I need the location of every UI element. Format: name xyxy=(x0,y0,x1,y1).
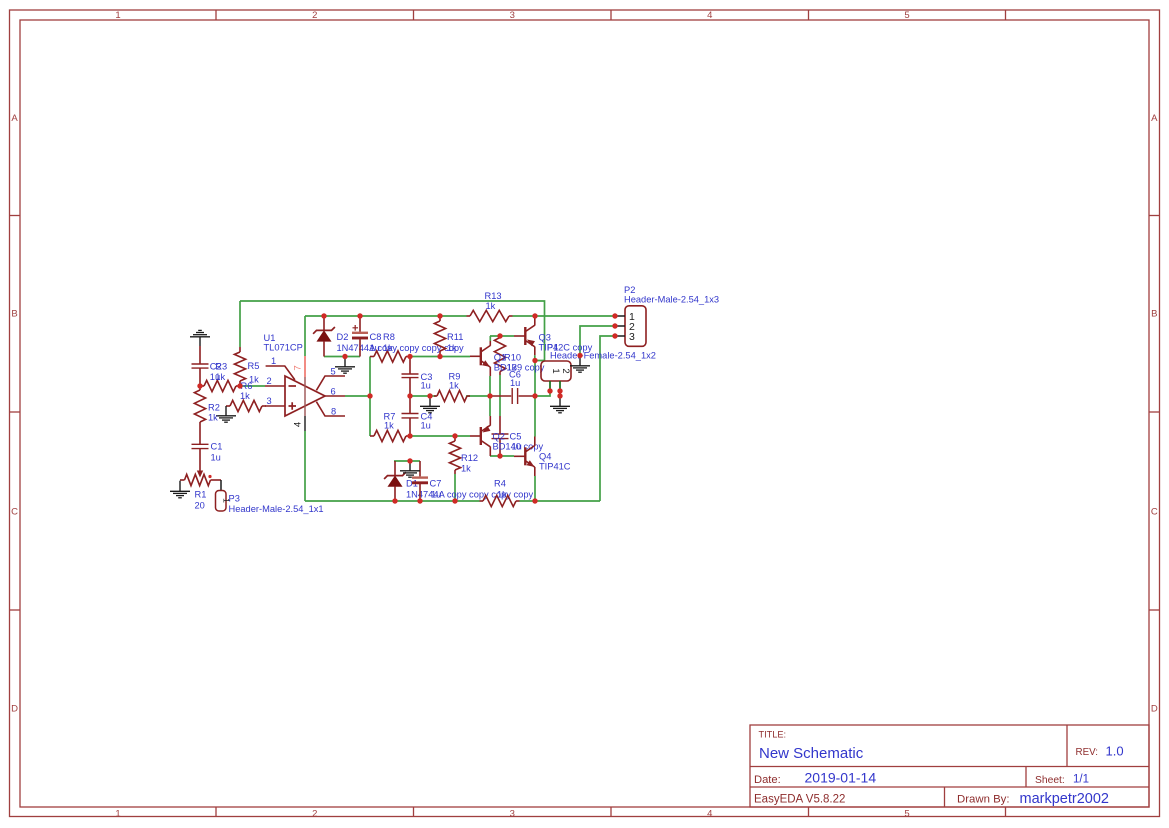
svg-text:2019-01-14: 2019-01-14 xyxy=(805,770,877,786)
junction dot (430,396) xyxy=(427,393,432,398)
header P2 pin 1 lead xyxy=(615,315,625,317)
svg-text:3: 3 xyxy=(629,331,635,343)
svg-text:R11: R11 xyxy=(447,332,463,342)
svg-text:1k: 1k xyxy=(240,391,250,401)
svg-text:6: 6 xyxy=(331,387,336,397)
ruler column numbers bottom xyxy=(115,808,909,819)
junction dot (360,316) xyxy=(357,313,362,318)
svg-text:5: 5 xyxy=(904,10,909,21)
transistor Q3 (TIP42C) xyxy=(514,325,535,347)
wire inverting input to pin2 xyxy=(240,385,265,387)
ruler column ticks xyxy=(216,10,1006,817)
wire pin7 supply drop xyxy=(304,316,306,356)
op-amp U1 triangle xyxy=(285,376,325,416)
svg-text:markpetr2002: markpetr2002 xyxy=(1020,791,1109,807)
op-amp pin 3 lead xyxy=(265,405,285,407)
header P1 pin2 to gnd stub xyxy=(559,391,561,396)
svg-text:R2: R2 xyxy=(208,403,220,413)
svg-text:BD139 copy: BD139 copy xyxy=(494,363,545,373)
svg-text:1k: 1k xyxy=(497,490,507,500)
junction dot (200,386) xyxy=(197,383,202,388)
op-amp pin 7 lead (salmon) xyxy=(304,356,306,377)
junction dot (410,461) xyxy=(407,458,412,463)
junction dot (535,360.5) xyxy=(532,358,537,363)
capacitor C3 xyxy=(402,357,419,397)
junction dot (410,356.5) xyxy=(407,354,412,359)
svg-text:C5: C5 xyxy=(510,432,522,442)
svg-text:1: 1 xyxy=(550,368,561,373)
svg-text:1k: 1k xyxy=(384,421,394,431)
header P2 pin 3 lead xyxy=(615,335,625,337)
resistor R6 xyxy=(226,400,266,411)
resistor R12 xyxy=(449,436,460,474)
svg-text:R8: R8 xyxy=(383,332,395,342)
header P2 pin 2 lead xyxy=(615,325,625,327)
svg-text:R5: R5 xyxy=(248,361,260,371)
svg-text:1k: 1k xyxy=(208,413,218,423)
svg-text:P2: P2 xyxy=(624,285,635,295)
ground (P1 pin2) xyxy=(550,397,570,413)
svg-text:U1: U1 xyxy=(264,333,276,343)
wire C3 bottom to gnd tap xyxy=(410,395,430,397)
junction dot (560,391) xyxy=(557,388,562,393)
resistor R11 xyxy=(434,316,445,357)
wire gnd tap to R9 left xyxy=(430,395,436,397)
svg-text:2: 2 xyxy=(312,10,317,21)
junction dot (420,501) xyxy=(417,498,422,503)
wire P2 pin3 down right rail xyxy=(600,336,615,501)
wire feedback rail x=370 (R8 left to R7 left) xyxy=(369,357,371,437)
capacitor C4 xyxy=(402,396,419,436)
resistor R4 xyxy=(480,495,520,506)
junction dot (535,396) xyxy=(532,393,537,398)
svg-text:1/1: 1/1 xyxy=(1073,774,1089,786)
op-amp U1 plus sign xyxy=(289,402,297,410)
svg-text:1k: 1k xyxy=(461,464,471,474)
svg-text:C: C xyxy=(1151,507,1158,518)
svg-text:Date:: Date: xyxy=(754,774,781,786)
wire R12 bottom drop xyxy=(454,474,456,501)
junction dot (395,501) xyxy=(392,498,397,503)
wire V+ row left segment (pin7 rail to R13 left) xyxy=(305,315,467,317)
wire R11 bottom to Q1 base xyxy=(440,356,470,358)
junction dot (440,316) xyxy=(437,313,442,318)
transistor Q4 (TIP41C) xyxy=(514,446,535,468)
svg-text:1u: 1u xyxy=(370,343,380,353)
svg-text:1k: 1k xyxy=(449,381,459,391)
svg-text:C7: C7 xyxy=(430,479,442,489)
title block frame xyxy=(750,725,1149,807)
svg-text:R4: R4 xyxy=(494,479,506,489)
wire D1 top to C7 top xyxy=(394,460,420,462)
svg-text:1u: 1u xyxy=(211,453,221,463)
ground (C3/R9 node) xyxy=(420,397,440,413)
svg-text:4: 4 xyxy=(707,10,712,21)
header P2 body xyxy=(625,306,646,347)
wire top rail from R5 top to Q3 emitter node xyxy=(240,301,545,361)
junction dot (440,356.5) xyxy=(437,354,442,359)
svg-text:4: 4 xyxy=(293,421,304,427)
svg-text:R13: R13 xyxy=(485,291,502,301)
svg-text:1u: 1u xyxy=(510,378,520,388)
junction dot (535,316) xyxy=(532,313,537,318)
resistor R5 xyxy=(234,347,245,386)
wire bottom rail left of R4 xyxy=(305,500,480,502)
svg-text:1k: 1k xyxy=(383,343,393,353)
capacitor C8 (polarized) xyxy=(352,316,368,357)
svg-text:Header-Male-2.54_1x1: Header-Male-2.54_1x1 xyxy=(229,504,324,514)
transistor Q1 (BD139) xyxy=(470,346,490,368)
svg-text:TIP41C: TIP41C xyxy=(539,462,571,472)
wire D2 cathode bottom to C8 bottom (gnd node) xyxy=(324,356,360,358)
junction dot (455,501) xyxy=(452,498,457,503)
capacitor C2 xyxy=(192,346,209,386)
svg-text:Q3: Q3 xyxy=(539,333,551,343)
wiper arrow from C1 to potentiometer R1 xyxy=(197,449,203,478)
resistor R9 xyxy=(434,390,470,401)
ruler row ticks xyxy=(10,216,1160,611)
resistor R13 xyxy=(467,310,513,321)
svg-text:R12: R12 xyxy=(461,453,478,463)
svg-text:C8: C8 xyxy=(370,332,382,342)
svg-text:P3: P3 xyxy=(229,494,240,504)
op-amp pin 8 lead xyxy=(316,402,345,416)
svg-text:TL071CP: TL071CP xyxy=(264,343,303,353)
header P1 body xyxy=(541,361,571,381)
wire Q4 emitter to bottom rail xyxy=(534,476,536,501)
capacitor C7 (polarized) xyxy=(412,461,428,501)
wire C6 right node to P1 pin1 xyxy=(535,391,550,396)
op-amp pin 1 lead xyxy=(266,366,295,380)
svg-text:B: B xyxy=(1151,309,1157,320)
junction dot (535,501) xyxy=(532,498,537,503)
wire emitter node down to Q2 emitter xyxy=(489,396,491,416)
wire Q2 collector row to Q4 base xyxy=(490,455,514,457)
svg-text:3: 3 xyxy=(510,10,515,21)
op-amp pin 4 lead (gray) xyxy=(304,416,306,431)
wire R9 right to emitter node xyxy=(466,395,492,397)
capacitor C1 xyxy=(192,430,209,449)
svg-text:5: 5 xyxy=(904,808,909,819)
header P1 pin 1 stub xyxy=(549,381,551,391)
junction dot (500,336) xyxy=(497,333,502,338)
ground (R6 left) xyxy=(216,406,236,422)
ruler row letters left xyxy=(11,113,18,715)
svg-text:R3: R3 xyxy=(215,362,227,372)
resistor R7 xyxy=(370,430,410,441)
op-amp pin 7 inner segment xyxy=(304,377,306,416)
svg-text:2: 2 xyxy=(560,368,571,373)
ground (D1/C7 top node) xyxy=(400,461,420,477)
wire Q3/Q4 collector rail x=535 xyxy=(534,361,536,437)
junction dot (560,396) xyxy=(557,393,562,398)
ground (P2 pin2 net) xyxy=(570,356,590,372)
wire R1 right to P3 pin xyxy=(215,479,221,481)
svg-text:4: 4 xyxy=(707,808,712,819)
svg-text:D2: D2 xyxy=(337,332,349,342)
svg-text:C: C xyxy=(11,507,18,518)
junction dot (345,356.5) xyxy=(342,354,347,359)
svg-text:1: 1 xyxy=(115,808,120,819)
resistor R8 xyxy=(370,351,410,362)
svg-text:A: A xyxy=(1151,113,1158,124)
header P3 body xyxy=(216,491,227,512)
zener diode D2 xyxy=(313,316,335,357)
transistor Q2 (BD140) xyxy=(470,425,491,447)
capacitor C6 (horizontal) xyxy=(492,388,535,404)
ground (R1 left) xyxy=(170,481,190,498)
svg-text:TITLE:: TITLE: xyxy=(759,730,787,740)
op-amp pin 6 lead xyxy=(325,395,345,397)
junction dot (490,396) xyxy=(487,393,492,398)
ruler row letters right xyxy=(1151,113,1158,715)
svg-text:1.0: 1.0 xyxy=(1106,744,1124,759)
junction dot (240,386) xyxy=(237,383,242,388)
ground (D2/C8/pin5) xyxy=(335,357,355,373)
node dot R1 wiper right xyxy=(208,475,211,478)
svg-text:1u: 1u xyxy=(421,381,431,391)
potentiometer R1 xyxy=(180,474,215,485)
ground (inverted, above C2) xyxy=(190,330,210,346)
wire R5 top to top rail xyxy=(239,301,241,347)
wire op-amp output pin6 to feedback rail xyxy=(345,395,370,397)
svg-text:Sheet:: Sheet: xyxy=(1035,775,1065,786)
svg-text:5: 5 xyxy=(331,367,336,377)
wire R7 right along y=436 to Q2 base xyxy=(410,435,470,437)
svg-text:R10: R10 xyxy=(504,353,521,363)
svg-text:Header-Male-2.54_1x3: Header-Male-2.54_1x3 xyxy=(624,295,719,305)
wire R10 bottom to C5 top xyxy=(499,375,501,416)
capacitor C5 xyxy=(492,416,509,456)
junction dot (615,326) xyxy=(612,323,617,328)
svg-text:3: 3 xyxy=(510,808,515,819)
svg-text:A: A xyxy=(11,113,18,124)
svg-text:BD140 copy: BD140 copy xyxy=(493,442,544,452)
wire Q1 collector row to R10/Q3 base xyxy=(490,335,514,337)
junction dot (324,316) xyxy=(321,313,326,318)
svg-text:Q2: Q2 xyxy=(493,432,505,442)
svg-text:7: 7 xyxy=(293,365,304,370)
op-amp U1 minus sign xyxy=(289,385,297,387)
junction dot (410,436) xyxy=(407,433,412,438)
svg-text:EasyEDA V5.8.22: EasyEDA V5.8.22 xyxy=(754,794,845,806)
resistor R2 xyxy=(194,386,205,430)
svg-text:1k: 1k xyxy=(215,372,225,382)
junction dot (455,436) xyxy=(452,433,457,438)
wire op-amp pin4 to bottom rail xyxy=(304,431,306,501)
wire V+ row right segment (R13 right to P2 pin1) xyxy=(513,315,616,317)
svg-text:Q4: Q4 xyxy=(539,452,551,462)
header P3 pin lead xyxy=(220,480,222,491)
svg-text:1: 1 xyxy=(271,356,276,366)
resistor R10 xyxy=(494,336,505,375)
zener diode D1 xyxy=(384,461,406,501)
svg-text:1u: 1u xyxy=(421,421,431,431)
junction dot (580,355.5) xyxy=(577,353,582,358)
op-amp pin 5 lead xyxy=(316,376,345,390)
svg-text:2: 2 xyxy=(267,376,272,386)
svg-text:1: 1 xyxy=(115,10,120,21)
svg-text:1k: 1k xyxy=(447,343,457,353)
op-amp pin 2 lead xyxy=(265,385,285,387)
svg-text:Header-Female-2.54_1x2: Header-Female-2.54_1x2 xyxy=(550,351,656,361)
wire bottom rail right of R4 xyxy=(520,500,601,502)
junction dot (615,316) xyxy=(612,313,617,318)
svg-text:D: D xyxy=(1151,704,1158,715)
svg-text:2: 2 xyxy=(312,808,317,819)
svg-text:3: 3 xyxy=(267,396,272,406)
junction dot (410,396) xyxy=(407,393,412,398)
junction dot (370,396) xyxy=(367,393,372,398)
wire R8 right to R11 bottom xyxy=(410,356,440,358)
junction dot (615,336) xyxy=(612,333,617,338)
wire Q1 emitter drop xyxy=(489,376,491,396)
svg-text:C1: C1 xyxy=(211,442,223,452)
svg-text:20: 20 xyxy=(195,501,205,511)
svg-text:New Schematic: New Schematic xyxy=(759,745,864,762)
junction dot (500,456) xyxy=(497,453,502,458)
wire P2 pin2 to gnd drop xyxy=(580,326,615,356)
svg-text:B: B xyxy=(11,309,17,320)
svg-text:Drawn By:: Drawn By: xyxy=(957,794,1010,806)
svg-text:1k: 1k xyxy=(486,301,496,311)
svg-text:R1: R1 xyxy=(195,490,207,500)
svg-text:REV:: REV: xyxy=(1076,747,1099,758)
svg-text:D: D xyxy=(11,704,18,715)
ruler column numbers top xyxy=(115,10,909,21)
svg-text:1u: 1u xyxy=(431,490,441,500)
junction dot (550,391) xyxy=(547,388,552,393)
svg-text:8: 8 xyxy=(331,407,336,417)
header P1 pin 2 stub xyxy=(559,381,561,391)
svg-text:Q1: Q1 xyxy=(494,353,506,363)
resistor R3 xyxy=(200,380,240,391)
svg-text:1N4744A copy copy copy copy: 1N4744A copy copy copy copy xyxy=(406,490,533,500)
